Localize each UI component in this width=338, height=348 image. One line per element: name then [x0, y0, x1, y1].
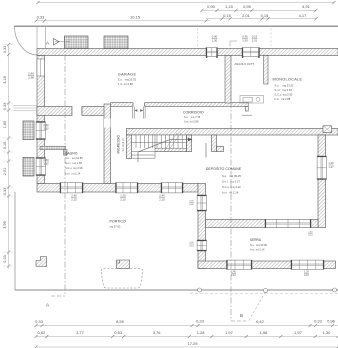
stair left wall: [126, 135, 131, 159]
right exterior wall: [318, 135, 326, 228]
south wall of main block: [37, 184, 198, 193]
svg-text:2,40: 2,40: [231, 271, 236, 274]
svg-text:0,33: 0,33: [3, 255, 7, 262]
window serra west 1: [197, 195, 206, 211]
svg-text:0,33: 0,33: [3, 46, 7, 53]
svg-text:0,33: 0,33: [3, 188, 7, 195]
stair right wall: [187, 135, 192, 152]
svg-text:3,99: 3,99: [3, 221, 7, 228]
svg-text:B: B: [240, 313, 243, 318]
svg-text:S.C.u. mq 4.12: S.C.u. mq 4.12: [222, 185, 241, 189]
svg-text:GARAGE: GARAGE: [118, 73, 137, 77]
corridor north thin wall: [111, 103, 249, 107]
svg-text:1,27: 1,27: [43, 127, 49, 131]
dimension row B (0,33 10,15 / 0,15 2,01 0,15 4,17): [36, 20, 210, 22]
svg-text:2,98: 2,98: [28, 76, 34, 80]
window top wall right (0,95): [242, 48, 260, 57]
serra south window 2: [291, 260, 324, 269]
left vertical dimension line: [8, 44, 10, 269]
svg-text:S.u. mq 39.25: S.u. mq 39.25: [222, 174, 241, 178]
door leaf deposito: [205, 143, 207, 158]
svg-text:S.n.l. mq 1.58: S.n.l. mq 1.58: [65, 161, 82, 165]
svg-text:1,27: 1,27: [43, 162, 49, 166]
svg-text:S.n.l. mq 2.94: S.n.l. mq 2.94: [275, 88, 293, 92]
svg-text:h.m. mt 2.88: h.m. mt 2.88: [275, 97, 291, 101]
svg-text:4,91: 4,91: [302, 4, 311, 9]
french door south wall: [116, 183, 139, 193]
svg-text:1,30: 1,30: [323, 330, 332, 335]
garage bottom wall west part: [37, 107, 72, 116]
extension lines from top dims: [196, 28, 198, 48]
svg-text:0,80: 0,80: [43, 158, 49, 162]
threshold mark monolocale: [242, 114, 252, 116]
svg-text:h.m. mt 2.89: h.m. mt 2.89: [184, 120, 199, 124]
svg-text:S.u. mq 30.06: S.u. mq 30.06: [250, 243, 267, 247]
window/door label: [43, 123, 49, 131]
garage bottom wall east part: [82, 107, 106, 116]
svg-text:PORTICO: PORTICO: [110, 220, 127, 224]
svg-text:1,60: 1,60: [3, 121, 7, 128]
bottom dim row 1: [36, 325, 338, 327]
svg-text:MONOLOCALE: MONOLOCALE: [273, 78, 303, 82]
svg-text:ANGOLO COTT.: ANGOLO COTT.: [235, 62, 255, 66]
serra south window 1: [227, 260, 253, 269]
door opening garage-antibagno: [72, 107, 82, 116]
light grate above garage left: [65, 36, 89, 49]
svg-text:0,33: 0,33: [314, 319, 323, 324]
serra south wall: [198, 261, 336, 269]
svg-text:mq 57.93: mq 57.93: [110, 225, 121, 229]
kitchen counter: [240, 96, 264, 104]
svg-text:h.m. mt 2.14: h.m. mt 2.14: [65, 171, 81, 175]
door opening corridor: [133, 102, 145, 107]
svg-text:8,59: 8,59: [116, 319, 125, 324]
site boundary line: [14, 25, 338, 27]
svg-text:17,29: 17,29: [187, 341, 198, 346]
svg-text:1,27: 1,27: [328, 165, 334, 169]
svg-text:1,50: 1,50: [242, 39, 248, 43]
svg-text:0,95: 0,95: [243, 4, 252, 9]
window south wall 2: [161, 183, 183, 193]
dimension row A (0,90 1,15 0,95 4,91): [202, 9, 316, 11]
svg-text:BAGNO: BAGNO: [65, 151, 78, 155]
svg-text:2,10: 2,10: [120, 198, 126, 202]
svg-text:S.C.u. mq 2.95: S.C.u. mq 2.95: [275, 93, 293, 97]
svg-text:0,33: 0,33: [37, 14, 46, 19]
svg-text:0,90: 0,90: [207, 4, 216, 9]
svg-text:2,10: 2,10: [71, 198, 77, 202]
svg-text:h.m. mt 2.14: h.m. mt 2.14: [222, 191, 239, 195]
garage east wall: [225, 56, 231, 104]
spine wall right of bagno: [104, 104, 111, 184]
svg-text:CORRIDOIO: CORRIDOIO: [183, 110, 204, 114]
svg-text:4,17: 4,17: [299, 13, 308, 18]
serra west wall: [198, 184, 206, 269]
svg-text:0,33: 0,33: [35, 319, 44, 324]
stair bottom strip: [152, 148, 187, 151]
svg-text:S.u. mq 12.80: S.u. mq 12.80: [65, 156, 83, 160]
pillar rect: [117, 260, 130, 268]
svg-text:0,10: 0,10: [3, 142, 7, 149]
bottom dim row 2: [36, 336, 338, 338]
svg-text:2,01: 2,01: [242, 13, 251, 18]
window left wall upper (0,80): [36, 122, 45, 140]
svg-text:S.u. mq 4.10: S.u. mq 4.10: [123, 138, 125, 152]
svg-text:0,33: 0,33: [196, 319, 205, 324]
antibagno/bagno divider thin wall (radiator-like): [40, 146, 66, 149]
hinge marks below top windows: [206, 56, 207, 58]
gate swing arc: [15, 26, 38, 55]
svg-text:3,76: 3,76: [153, 330, 162, 335]
crossed shaft box at wall east end: [323, 126, 332, 133]
portico west edge: [14, 192, 16, 290]
svg-text:INGRESSO: INGRESSO: [116, 135, 120, 154]
light grate above garage right: [104, 36, 128, 49]
window south wall 1: [60, 183, 83, 193]
svg-text:h.m. mt 2.14: h.m. mt 2.14: [250, 248, 265, 252]
svg-text:SERRA: SERRA: [250, 238, 262, 242]
extension lines left: [3, 44, 13, 46]
central wall corridoio south / monolocale south: [126, 129, 338, 136]
dashed planter: [101, 269, 143, 289]
window top wall left (0,90): [206, 48, 218, 57]
svg-text:3,18: 3,18: [3, 76, 7, 83]
svg-text:0,33: 0,33: [3, 103, 7, 110]
svg-text:2,10: 2,10: [159, 198, 165, 202]
svg-text:0,15: 0,15: [223, 13, 232, 18]
window well upper: [23, 121, 34, 140]
window well lower: [23, 158, 34, 177]
svg-text:1,20: 1,20: [328, 161, 334, 165]
left exterior wall: [37, 56, 45, 184]
svg-text:2,01: 2,01: [3, 168, 7, 175]
deposito/serra divider wall: [206, 220, 319, 228]
window left wall lower (0,80): [36, 158, 45, 176]
svg-text:0,96: 0,96: [327, 319, 336, 324]
section line B-B: [230, 56, 232, 321]
left wall extension to site line: [36, 26, 38, 49]
window divider wall: [265, 219, 311, 227]
svg-text:1,15: 1,15: [225, 4, 234, 9]
svg-text:DEPOSITO COMUNE: DEPOSITO COMUNE: [206, 167, 242, 171]
svg-text:0,15: 0,15: [261, 13, 270, 18]
svg-text:S.u. mq 23.52: S.u. mq 23.52: [275, 83, 294, 87]
drain circle 1: [198, 288, 202, 292]
svg-text:S.n.l. mq 3.27: S.n.l. mq 3.27: [222, 180, 240, 184]
window labels above top wall: [212, 35, 218, 43]
svg-text:1,97: 1,97: [294, 330, 303, 335]
drain circle 2: [264, 289, 268, 293]
svg-text:2,01: 2,01: [252, 39, 258, 43]
svg-text:h.m. mt 2.88: h.m. mt 2.88: [118, 82, 133, 86]
svg-text:2,10: 2,10: [231, 274, 236, 277]
window right wall (1,20): [317, 156, 326, 180]
door gap in spine wall: [104, 119, 111, 128]
svg-text:2,10: 2,10: [304, 274, 309, 277]
door stub wall south of corridor: [212, 135, 217, 152]
window serra west 2: [197, 240, 206, 251]
svg-text:S.C.u. mq 2.98: S.C.u. mq 2.98: [65, 166, 83, 170]
section line A-A: [64, 43, 66, 296]
svg-text:S.u. mq 29.33: S.u. mq 29.33: [118, 77, 137, 81]
svg-text:6,42: 6,42: [256, 319, 265, 324]
svg-text:0,63: 0,63: [114, 330, 123, 335]
top exterior wall: [37, 49, 338, 56]
svg-text:1,28: 1,28: [197, 330, 206, 335]
staircase treads: [132, 135, 187, 158]
svg-text:S.u. mq 7.35: S.u. mq 7.35: [184, 115, 201, 119]
svg-text:1,20: 1,20: [304, 271, 309, 274]
angolo cottura east wall: [264, 56, 268, 85]
stair break line: [164, 133, 181, 151]
portico/terrace south edge: [15, 289, 338, 291]
driveway lines left of wall: [14, 105, 38, 107]
bottom dim row 3 total: [36, 346, 338, 348]
svg-text:1,50: 1,50: [212, 39, 218, 43]
svg-text:1,97: 1,97: [225, 330, 234, 335]
door jamb reveal marks: [132, 107, 145, 119]
svg-text:1,98: 1,98: [260, 330, 269, 335]
drain circle 3: [333, 288, 337, 292]
pillar L-shaped: [36, 257, 47, 267]
dimension line top overall: [38, 2, 334, 4]
svg-text:3,77: 3,77: [76, 330, 85, 335]
svg-text:0,80: 0,80: [43, 123, 49, 127]
svg-text:10,15: 10,15: [130, 14, 141, 19]
svg-text:0,62: 0,62: [38, 330, 47, 335]
stair direction arrow: [138, 140, 189, 163]
garage door opening in left wall: [37, 59, 45, 76]
